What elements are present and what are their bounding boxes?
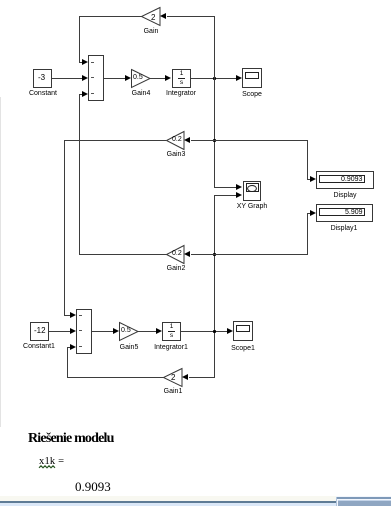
spellcheck squiggle under x1k <box>39 465 56 469</box>
wire: elbow into Sum2 input 1 <box>64 315 71 316</box>
arrowhead into Sum1 input 3 <box>82 91 88 97</box>
scrollbar left band <box>0 496 336 501</box>
scrollbar dark line left segment <box>0 501 336 503</box>
arrowhead into Gain4 <box>125 75 131 81</box>
arrowhead into Gain2 <box>184 251 190 257</box>
constant block Constant1 (-12) <box>30 322 49 341</box>
wire: vertical bus top system <box>214 16 215 187</box>
wire: Gain output left <box>79 16 142 17</box>
wire: elbow into Sum2 input 3 <box>67 347 71 348</box>
wire: bus to Gain3 input <box>191 140 215 141</box>
sum block Sum1 <box>88 55 104 101</box>
wire: Gain4 to Integrator <box>150 78 166 79</box>
scrollbar left light area <box>0 503 336 506</box>
arrowhead into XY Graph input 2 <box>236 192 242 198</box>
faint left document edge <box>0 97 1 427</box>
scrollbar top line right segment <box>336 497 391 499</box>
wire: feedback top horizontal from vertical bus to Gain input <box>167 16 215 17</box>
scope block Scope <box>242 68 262 88</box>
junction at Gain3 line <box>213 139 216 142</box>
arrowhead Constant to Sum1 <box>82 75 88 81</box>
arrowhead into XY Graph input 1 <box>236 184 242 190</box>
arrowhead into Display <box>310 176 316 182</box>
arrowhead into Display1 <box>310 210 316 216</box>
junction at Gain2 line <box>213 253 216 256</box>
wire: vertical bus bottom system <box>214 195 215 378</box>
sum block Sum2 <box>76 309 92 354</box>
wire: Gain3 output left <box>64 140 166 141</box>
gain Gain5 (0.5) <box>119 322 139 342</box>
result 0.9093 <box>75 479 111 495</box>
wire: Display1 rise <box>307 213 308 255</box>
constant block Constant (-3) <box>33 69 52 88</box>
arrowhead into Sum1 input 1 <box>82 59 88 65</box>
arrowhead Constant1 to Sum2 <box>70 328 76 334</box>
scrollbar divider <box>336 497 337 506</box>
wire: Constant1 to Sum2 <box>49 331 71 332</box>
integrator block Integrator1 (1/s) <box>162 322 181 341</box>
wire: bus drop to Gain1 <box>189 377 215 378</box>
arrowhead into Gain3 <box>184 137 190 143</box>
wire: elbow into Sum1 input 3 <box>79 94 83 95</box>
wire: Gain2 output left to riser <box>79 254 167 255</box>
display block Display (0.9093) <box>316 171 374 189</box>
gain Gain1 (2) <box>163 368 183 388</box>
wire: Gain1 feedback rise into Sum2 input 3 <box>67 347 68 378</box>
wire: Display drop <box>307 140 308 179</box>
wire: elbow into XY Graph input 2 <box>214 195 237 196</box>
arrowhead into Integrator1 <box>156 328 162 334</box>
arrowhead into Gain1 <box>182 374 188 380</box>
gain Gain3 (0.2) <box>166 131 185 151</box>
wire: Sum2 to Gain5 <box>92 331 114 332</box>
heading Riesenie modelu <box>28 431 114 447</box>
wire: Gain1 output left <box>67 377 164 378</box>
wire: into Display1 <box>307 213 311 214</box>
gain U Gain (2) <box>141 7 161 27</box>
arrowhead into Scope1 <box>227 328 233 334</box>
integrator block Integrator (1/s) <box>172 69 191 88</box>
arrowhead into Sum2 input 1 <box>70 312 76 318</box>
wire: elbow into Sum1 input 1 <box>79 62 83 63</box>
arrowhead into Integrator <box>165 75 171 81</box>
gain Gain4 (0.5) <box>131 69 151 89</box>
wire: bus to Gain2 input <box>191 254 215 255</box>
display block Display1 (5.909) <box>316 204 373 222</box>
wire: left drop to Sum1 input 1 <box>79 16 80 63</box>
junction Integrator1 output <box>213 330 216 333</box>
bottom scrollbar strip <box>0 496 391 506</box>
xy graph block XY Graph <box>243 181 261 201</box>
wire: Integrator1 to Scope1 <box>181 331 227 332</box>
wire: drop to Sum2 input 1 <box>64 140 65 316</box>
scope block Scope1 <box>233 321 253 341</box>
wire: Gain5 to Integrator1 <box>138 331 157 332</box>
arrowhead into Sum2 input 3 <box>70 344 76 350</box>
wire: bus right to Display1 corner <box>214 254 308 255</box>
wire: elbow into XY Graph input 1 <box>214 187 237 188</box>
equation x1k = <box>39 456 64 467</box>
wire: into Display <box>307 179 311 180</box>
wire: bus right to Display corner <box>214 140 308 141</box>
arrowhead into Scope <box>236 75 242 81</box>
wire: Integrator to Scope <box>191 78 237 79</box>
junction Integrator output <box>213 77 216 80</box>
wire: Constant to Sum1 <box>52 78 83 79</box>
wire: Gain2 feedback rise to Sum1 input 3 <box>79 94 80 255</box>
scrollbar thumb <box>338 500 391 506</box>
arrowhead into Gain5 <box>113 328 119 334</box>
wire: Sum1 to Gain4 <box>104 78 126 79</box>
gain Gain2 (0.2) <box>166 245 185 265</box>
arrowhead into Gain input <box>160 13 166 19</box>
